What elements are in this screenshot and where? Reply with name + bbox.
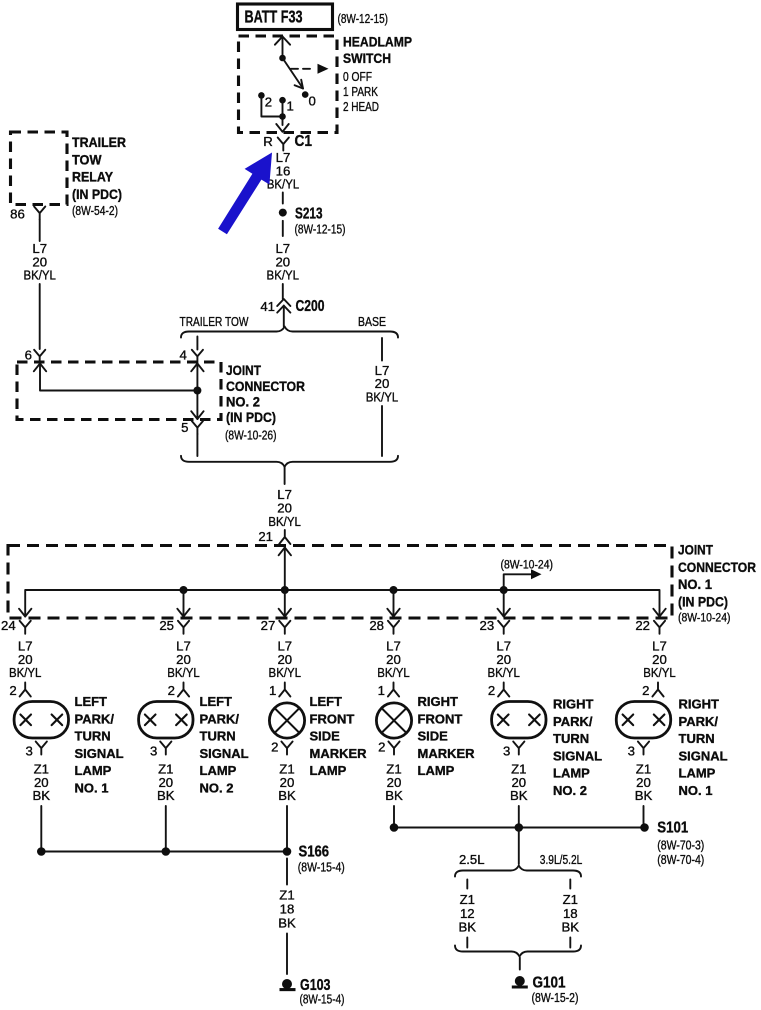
arrow into pin 25 xyxy=(177,609,189,617)
svg-text:BK/YL: BK/YL xyxy=(269,665,302,680)
svg-text:(8W-15-2): (8W-15-2) xyxy=(532,990,579,1005)
connector pin 21 joint connector 1 xyxy=(279,530,290,544)
svg-text:2: 2 xyxy=(642,683,649,698)
svg-text:JOINT: JOINT xyxy=(226,363,261,378)
arrow into pin 28 xyxy=(387,609,399,617)
svg-text:1: 1 xyxy=(378,683,385,698)
svg-text:JOINT: JOINT xyxy=(678,543,713,558)
connector lamp pin 2 xyxy=(498,683,509,697)
svg-text:25: 25 xyxy=(159,618,174,633)
svg-text:TURN: TURN xyxy=(553,731,589,746)
svg-text:1 PARK: 1 PARK xyxy=(343,84,378,99)
joint connector no. 2 dashed box xyxy=(17,362,221,420)
svg-text:(8W-10-24): (8W-10-24) xyxy=(501,558,554,572)
svg-text:2.5L: 2.5L xyxy=(459,852,485,867)
junction lamp2 ground bus xyxy=(162,847,171,856)
wire relay to joint connector 2 upper xyxy=(39,220,41,242)
svg-text:BK/YL: BK/YL xyxy=(366,389,399,404)
arrow into pin 23 xyxy=(498,609,510,617)
svg-text:TURN: TURN xyxy=(679,731,715,746)
joint connector 1 feed arrow xyxy=(279,548,291,591)
junction joint connector 2 xyxy=(193,387,201,395)
lamp left park/turn signal lamp no.1 xyxy=(14,702,68,739)
svg-text:HEADLAMP: HEADLAMP xyxy=(343,35,412,50)
svg-text:2: 2 xyxy=(9,683,16,698)
svg-text:(8W-54-2): (8W-54-2) xyxy=(72,203,118,218)
svg-text:0: 0 xyxy=(309,94,316,109)
joint connector no. 1 dashed box xyxy=(8,546,672,619)
svg-text:BK: BK xyxy=(33,788,51,803)
wire lamp1 to ground bus xyxy=(40,806,42,852)
svg-text:BK/YL: BK/YL xyxy=(377,665,410,680)
wire pin 5 to merge brace xyxy=(196,434,198,456)
wire above C200 xyxy=(282,284,284,299)
svg-text:Z1: Z1 xyxy=(563,892,578,907)
svg-text:LAMP: LAMP xyxy=(200,763,237,778)
wire contact 1 to output node xyxy=(282,100,284,125)
svg-text:FRONT: FRONT xyxy=(310,711,355,726)
wire trailer tow branch xyxy=(196,337,198,350)
connector pin 27 joint connector 1 xyxy=(279,621,290,634)
connector pin 23 joint connector 1 xyxy=(498,621,509,634)
wire relay to joint connector 2 lower xyxy=(39,284,41,349)
connector lamp ground pin 3 xyxy=(638,742,649,755)
svg-text:NO. 2: NO. 2 xyxy=(226,394,260,409)
ground bus right xyxy=(394,827,645,829)
svg-text:SWITCH: SWITCH xyxy=(343,51,391,66)
junction switch output xyxy=(279,113,286,120)
svg-text:FRONT: FRONT xyxy=(418,711,463,726)
wire lamp3 to S166 xyxy=(286,806,288,852)
power source BATT F33 fuse box xyxy=(238,4,333,30)
junction bus tap pin 23 xyxy=(500,586,508,594)
svg-text:PARK/: PARK/ xyxy=(75,711,115,726)
wire contact 2 to output node xyxy=(261,95,282,116)
svg-text:RIGHT: RIGHT xyxy=(418,694,459,709)
connector lamp ground pin 3 xyxy=(160,742,171,755)
svg-text:NO. 2: NO. 2 xyxy=(553,783,587,798)
wire base branch upper xyxy=(381,338,383,361)
svg-text:Z1: Z1 xyxy=(460,892,475,907)
wire bus drop pin 28 xyxy=(393,590,395,617)
wire bus drop pin 23 xyxy=(503,590,505,617)
connector lamp pin 2 xyxy=(178,683,189,697)
connector pin 24 joint connector 1 xyxy=(20,621,31,634)
svg-text:(8W-15-4): (8W-15-4) xyxy=(300,992,345,1007)
lamp left front side marker lamp xyxy=(269,703,304,738)
connector pin 25 joint connector 1 xyxy=(178,621,189,634)
svg-text:CONNECTOR: CONNECTOR xyxy=(226,379,305,394)
svg-text:BASE: BASE xyxy=(358,314,386,329)
svg-text:(IN PDC): (IN PDC) xyxy=(678,594,728,609)
svg-text:BK/YL: BK/YL xyxy=(9,665,42,680)
junction lamp4 ground bus xyxy=(390,823,399,832)
svg-text:BK/YL: BK/YL xyxy=(487,665,520,680)
svg-text:LAMP: LAMP xyxy=(679,766,716,781)
wire S101 bus to engine split xyxy=(518,828,520,865)
svg-text:R: R xyxy=(263,134,273,149)
splice S166 xyxy=(283,847,292,856)
svg-text:LEFT: LEFT xyxy=(310,694,343,709)
svg-text:BK: BK xyxy=(510,788,528,803)
svg-text:C1: C1 xyxy=(295,133,313,150)
svg-text:(8W-12-15): (8W-12-15) xyxy=(295,221,346,236)
connector pin 86 xyxy=(34,207,45,220)
brace merge of trailer tow and base xyxy=(181,456,398,467)
svg-text:TRAILER: TRAILER xyxy=(72,135,126,150)
wire 2.5L branch lower xyxy=(466,938,468,948)
svg-text:Z1: Z1 xyxy=(279,888,294,903)
svg-text:86: 86 xyxy=(10,207,25,222)
connector pin 22 joint connector 1 xyxy=(654,621,665,634)
wire 2.5L branch upper xyxy=(466,880,468,889)
svg-text:(8W-15-4): (8W-15-4) xyxy=(298,859,345,874)
svg-text:NO. 1: NO. 1 xyxy=(678,577,712,592)
connector pin 4 joint connector 2 xyxy=(192,350,203,363)
switch pivot contact xyxy=(279,55,286,62)
lamp right park/turn signal lamp no.1 xyxy=(616,702,670,739)
svg-text:(8W-70-3): (8W-70-3) xyxy=(657,838,704,853)
wire lamp5 to ground bus xyxy=(518,806,520,828)
connector C1 xyxy=(278,138,289,151)
junction bus tap pin 28 xyxy=(390,586,398,594)
svg-text:BK/YL: BK/YL xyxy=(267,268,300,283)
wire lamp4 to ground bus xyxy=(393,806,395,828)
svg-text:S166: S166 xyxy=(299,844,330,861)
wire below C200 xyxy=(283,306,285,327)
svg-text:18: 18 xyxy=(280,901,295,916)
svg-text:PARK/: PARK/ xyxy=(679,714,719,729)
junction lamp1 ground bus xyxy=(37,847,46,856)
connector pin 5 joint connector 2 xyxy=(192,421,203,434)
svg-text:TOW: TOW xyxy=(72,152,102,167)
wire bus drop pin 25 xyxy=(183,590,185,617)
svg-text:3: 3 xyxy=(150,744,157,759)
svg-text:NO. 1: NO. 1 xyxy=(75,780,109,795)
svg-text:LEFT: LEFT xyxy=(75,694,108,709)
connector lamp pin 2 xyxy=(20,683,31,697)
svg-text:RIGHT: RIGHT xyxy=(679,697,720,712)
connector pin 28 joint connector 1 xyxy=(388,621,399,634)
connector lamp ground pin 2 xyxy=(388,742,399,755)
svg-text:LEFT: LEFT xyxy=(200,694,233,709)
svg-text:3: 3 xyxy=(628,744,635,759)
wire to G103 xyxy=(286,934,288,975)
svg-text:PARK/: PARK/ xyxy=(553,714,593,729)
svg-text:NO. 1: NO. 1 xyxy=(679,783,713,798)
wire 3.9L/5.2L branch lower xyxy=(569,938,571,948)
switch wiper arm xyxy=(283,58,304,89)
headlamp switch common pole wire xyxy=(275,37,290,59)
svg-text:22: 22 xyxy=(635,618,650,633)
wire S166 down xyxy=(286,859,288,885)
svg-text:BK/YL: BK/YL xyxy=(268,514,301,529)
blue highlight arrow xyxy=(218,153,272,235)
wire below merge brace xyxy=(284,467,286,484)
svg-text:TRAILER TOW: TRAILER TOW xyxy=(180,314,249,329)
svg-text:(IN PDC): (IN PDC) xyxy=(72,187,122,202)
svg-text:LAMP: LAMP xyxy=(75,763,112,778)
svg-text:3.9L/5.2L: 3.9L/5.2L xyxy=(540,852,583,867)
svg-text:BK: BK xyxy=(278,916,296,931)
connector lamp ground pin 3 xyxy=(36,742,47,755)
connector pin 6 joint connector 2 xyxy=(34,350,45,363)
svg-text:2: 2 xyxy=(265,95,272,110)
svg-text:BK/YL: BK/YL xyxy=(267,177,300,192)
connector lamp pin 1 xyxy=(279,683,290,697)
svg-text:LAMP: LAMP xyxy=(553,766,590,781)
wire base branch lower xyxy=(381,406,383,456)
svg-text:27: 27 xyxy=(261,618,276,633)
joint connector 2 internal bus pin4 to pin5 xyxy=(191,364,203,420)
svg-text:SIDE: SIDE xyxy=(310,729,341,744)
svg-text:TURN: TURN xyxy=(200,729,236,744)
brace split to trailer tow and base xyxy=(181,327,398,338)
splice S213 xyxy=(279,209,287,217)
wire to G101 xyxy=(519,958,521,970)
switch contact 1 xyxy=(279,97,286,104)
ground bus left xyxy=(41,851,287,853)
svg-text:SIDE: SIDE xyxy=(418,729,449,744)
junction bus tap pin 25 xyxy=(180,586,188,594)
connector C200 xyxy=(277,299,290,313)
switch contact 2 xyxy=(258,92,265,99)
svg-text:PARK/: PARK/ xyxy=(200,711,240,726)
wire lamp6 to S101 xyxy=(643,806,645,828)
lamp left park/turn signal lamp no.2 xyxy=(139,702,193,739)
svg-text:LAMP: LAMP xyxy=(310,763,347,778)
junction lamp5 ground bus xyxy=(515,823,524,832)
svg-text:SIGNAL: SIGNAL xyxy=(679,748,728,763)
svg-text:24: 24 xyxy=(1,618,16,633)
junction bus tap pin 27 xyxy=(281,586,289,594)
connector lamp pin 2 xyxy=(652,683,663,697)
svg-text:BK/YL: BK/YL xyxy=(643,665,676,680)
svg-text:C200: C200 xyxy=(296,298,325,315)
connector lamp ground pin 2 xyxy=(281,742,292,755)
svg-text:2 HEAD: 2 HEAD xyxy=(343,99,379,114)
svg-text:6: 6 xyxy=(25,348,32,363)
svg-text:RELAY: RELAY xyxy=(72,170,113,185)
wire lamp2 to ground bus xyxy=(165,806,167,852)
arrow into pin 22 xyxy=(653,609,665,617)
wire below S213 xyxy=(282,221,284,236)
lamp right park/turn signal lamp no.2 xyxy=(492,702,546,739)
joint connector 1 internal bus xyxy=(25,590,659,617)
svg-text:0 OFF: 0 OFF xyxy=(343,69,372,84)
svg-text:S101: S101 xyxy=(657,820,688,837)
svg-text:2: 2 xyxy=(378,740,385,755)
joint connector 2 internal branch to pin 6 xyxy=(34,364,198,391)
svg-text:4: 4 xyxy=(179,348,186,363)
svg-text:TURN: TURN xyxy=(75,729,111,744)
svg-text:SIGNAL: SIGNAL xyxy=(75,746,124,761)
svg-text:(8W-10-24): (8W-10-24) xyxy=(678,611,731,625)
svg-text:MARKER: MARKER xyxy=(418,746,476,761)
svg-text:BK: BK xyxy=(385,788,403,803)
svg-text:5: 5 xyxy=(181,420,188,435)
connector lamp ground pin 3 xyxy=(513,742,524,755)
svg-text:BATT F33: BATT F33 xyxy=(245,7,303,27)
brace merge to G101 xyxy=(455,946,581,957)
svg-text:23: 23 xyxy=(480,618,495,633)
lamp right front side marker lamp xyxy=(376,703,411,738)
switch contact 0 xyxy=(302,91,309,98)
ground G103 xyxy=(280,979,296,990)
svg-text:CONNECTOR: CONNECTOR xyxy=(678,560,756,575)
wire bus drop pin 27 xyxy=(284,590,286,617)
brace split 2.5L and 3.9L/5.2L xyxy=(455,866,581,877)
svg-text:BK: BK xyxy=(278,788,296,803)
switch output arrow xyxy=(276,124,288,132)
svg-text:(IN PDC): (IN PDC) xyxy=(226,410,276,425)
svg-text:1: 1 xyxy=(269,683,276,698)
svg-text:28: 28 xyxy=(369,618,384,633)
splice S101 xyxy=(640,823,649,832)
svg-text:2: 2 xyxy=(271,740,278,755)
svg-text:(8W-10-26): (8W-10-26) xyxy=(225,428,277,443)
connector lamp pin 1 xyxy=(388,683,399,697)
svg-text:SIGNAL: SIGNAL xyxy=(200,746,249,761)
svg-text:(8W-12-15): (8W-12-15) xyxy=(338,11,389,26)
svg-text:12: 12 xyxy=(460,906,475,921)
svg-text:18: 18 xyxy=(563,906,578,921)
switch motion dashed arrow xyxy=(291,64,329,74)
callout arrow to 8W-10-24 xyxy=(504,569,542,590)
svg-text:2: 2 xyxy=(488,683,495,698)
arrow into pin 27 xyxy=(279,609,291,617)
switch headlamp switch dashed box xyxy=(239,36,338,133)
svg-text:21: 21 xyxy=(258,529,273,544)
svg-text:(8W-70-4): (8W-70-4) xyxy=(657,852,704,867)
svg-text:RIGHT: RIGHT xyxy=(553,697,594,712)
svg-text:BK: BK xyxy=(635,788,653,803)
svg-text:LAMP: LAMP xyxy=(418,763,455,778)
svg-text:BK/YL: BK/YL xyxy=(23,268,56,283)
svg-text:BK: BK xyxy=(562,920,580,935)
svg-text:2: 2 xyxy=(168,683,175,698)
svg-text:MARKER: MARKER xyxy=(310,746,368,761)
svg-text:NO. 2: NO. 2 xyxy=(200,780,234,795)
wire L7 16 BK/YL segment xyxy=(282,193,284,204)
svg-text:3: 3 xyxy=(503,744,510,759)
svg-text:3: 3 xyxy=(25,744,32,759)
svg-text:BK: BK xyxy=(459,920,477,935)
ground G101 xyxy=(512,976,528,987)
svg-text:1: 1 xyxy=(287,99,294,114)
svg-text:41: 41 xyxy=(260,299,275,314)
svg-text:G101: G101 xyxy=(533,975,566,992)
svg-text:BK/YL: BK/YL xyxy=(167,665,200,680)
arrow into pin 24 xyxy=(19,609,31,617)
relay trailer tow relay dashed box xyxy=(11,132,68,205)
svg-text:SIGNAL: SIGNAL xyxy=(553,748,602,763)
svg-text:S213: S213 xyxy=(295,206,323,223)
wire 3.9L/5.2L branch upper xyxy=(569,880,571,889)
svg-text:BK: BK xyxy=(157,788,175,803)
